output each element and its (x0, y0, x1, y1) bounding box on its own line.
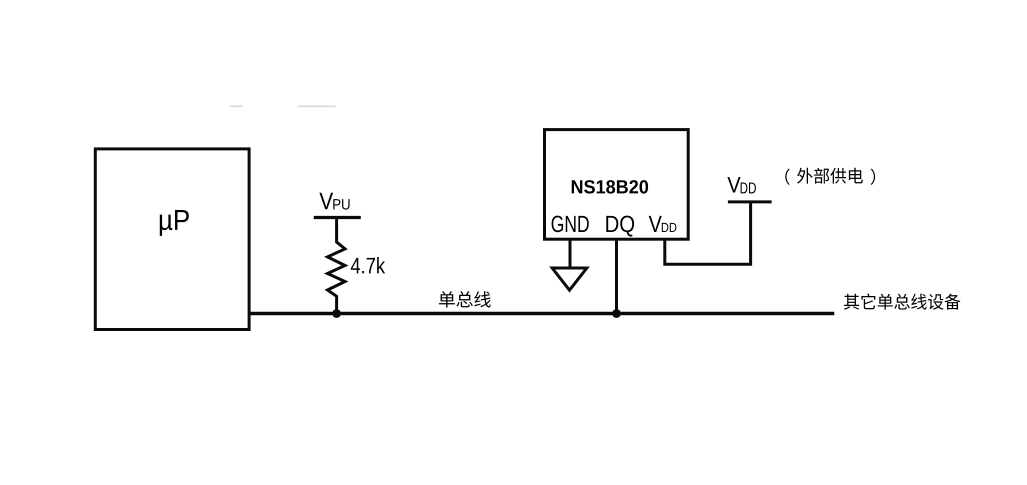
label V of VPU (319, 193, 333, 210)
annotation 外部供电 (external power) (797, 168, 863, 184)
sensor block NS18B20 (545, 130, 689, 240)
label DD subscript of external VDD (741, 182, 756, 193)
wire: GND pin (569, 239, 572, 267)
junction node: DQ to bus (612, 309, 621, 318)
wire: one-wire bus (horizontal) (249, 312, 834, 315)
net label 单总线 (one-wire bus) (439, 291, 491, 307)
pin label V of VDD (649, 216, 662, 232)
pin label DD subscript (662, 223, 677, 232)
annotation close paren (871, 169, 875, 185)
ground symbol (open triangle) (552, 268, 587, 290)
label V of external VDD (727, 177, 740, 193)
pin label GND (552, 216, 589, 233)
faint artifact marks (230, 106, 244, 108)
label 其它单总线设备 (other one-wire devices) (844, 294, 961, 310)
microprocessor block uP (95, 149, 249, 330)
label PU subscript (333, 199, 349, 210)
junction node: resistor to bus (332, 309, 341, 318)
resistor 4.7k (zigzag) with wire from VPU bar to bus (328, 219, 346, 314)
label NS18B20 (572, 180, 648, 194)
power rail VPU bar (314, 216, 361, 219)
power rail VDD bar (external supply) (728, 200, 772, 203)
wire: DQ pin to bus (615, 239, 618, 314)
wire: VDD pin to external supply (665, 203, 751, 264)
annotation open paren (785, 169, 789, 185)
value label 4.7k (351, 257, 385, 273)
label µP (160, 210, 189, 236)
pin label DQ (606, 216, 634, 237)
